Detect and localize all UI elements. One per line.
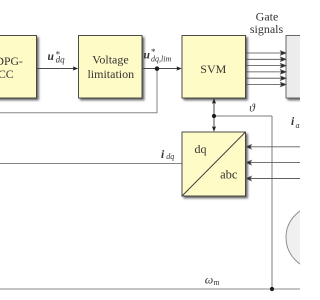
SVM block [182, 36, 246, 99]
wire: theta horizontal from junction to right vertical [214, 115, 272, 117]
label i_dq [161, 149, 174, 161]
inverter block (gray, cut at right edge) [286, 36, 320, 99]
wire: theta up into SVM [213, 102, 215, 116]
machine (circle, cut at right edge) [286, 206, 320, 270]
svg-text:Voltage: Voltage [92, 53, 128, 67]
node: theta junction [212, 114, 216, 118]
svg-text:DPG-: DPG- [0, 55, 23, 68]
wire: theta/omega vertical line [271, 116, 273, 289]
svg-text:dq,lim: dq,lim [151, 54, 171, 63]
wire: voltage limitation to SVM [142, 68, 178, 70]
label i_abc (cut at right edge) [291, 116, 308, 130]
node: u*_dq,lim junction [155, 66, 160, 71]
wire: u*_dq,lim feedback from junction down and left [0, 69, 157, 113]
svg-text:u: u [48, 51, 55, 63]
wires: three phase current arrows into dq/abc [246, 145, 300, 181]
voltage limitation block [79, 36, 143, 99]
label u*_dq [48, 50, 66, 65]
controller block (DPG-CC, cut at left edge) [0, 36, 37, 99]
label u*_dq,lim [144, 47, 172, 63]
svg-text:dq: dq [166, 152, 174, 161]
wire: controller to voltage limitation [37, 68, 75, 70]
node: omega junction [270, 287, 274, 291]
diagonal divider [182, 132, 246, 196]
label: Gate signals [250, 9, 284, 36]
svg-text:SVM: SVM [200, 62, 226, 76]
dq/abc transformation block [182, 132, 246, 196]
wire: theta down into dq/abc [213, 116, 215, 128]
svg-text:abc: abc [220, 167, 238, 181]
svg-text:dq: dq [56, 55, 66, 65]
svg-text:m: m [213, 278, 220, 287]
wire: omega_m line across bottom [0, 288, 300, 290]
label omega_m [205, 273, 221, 287]
svg-text:ω: ω [205, 273, 213, 287]
svg-text:abc: abc [296, 121, 301, 130]
wire: i_dq output from dq/abc block to left edge [0, 163, 182, 165]
svg-text:CC: CC [0, 68, 14, 81]
wires: six gate signal arrows SVM to inverter [246, 51, 287, 87]
svg-text:limitation: limitation [87, 67, 134, 81]
svg-text:dq: dq [195, 142, 207, 156]
svg-text:signals: signals [250, 22, 284, 36]
svg-text:u: u [144, 49, 151, 61]
